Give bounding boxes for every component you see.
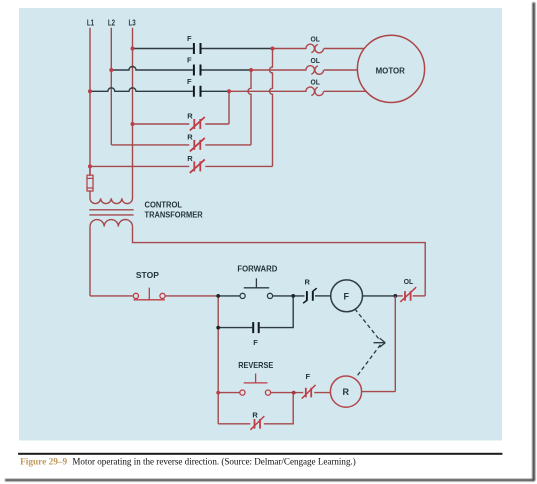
wire R holding rung — [218, 393, 293, 424]
contact OL (NC) bars and slash — [405, 291, 411, 301]
wire row1 black left segment — [133, 48, 193, 50]
junction dot L3 row1 — [131, 47, 135, 51]
svg-text:Figure 29–9: Figure 29–9 — [20, 457, 67, 467]
wire R coil to right vertical — [362, 391, 396, 393]
svg-text:L3: L3 — [129, 18, 137, 27]
transformer T1 secondary winding — [90, 220, 133, 227]
wire row2 red to motor — [324, 69, 358, 71]
wire R-row1 — [133, 123, 230, 125]
wire OL junction to OL contact — [395, 295, 403, 297]
junction dot L2 row2 — [109, 68, 113, 72]
wire row2 black left segment with hop over L3 — [111, 67, 193, 71]
wire F coil to OL junction — [363, 295, 396, 297]
junction dot F coil OL — [393, 294, 397, 298]
overload heater OL3 — [306, 87, 324, 96]
wire secondary right down and across to right rail — [133, 227, 426, 296]
wire row1 red to motor — [324, 48, 364, 50]
wire vertical row1 to R-row3 with hops — [270, 49, 273, 167]
wire vertical row3 to R-row1 — [228, 91, 230, 124]
wire reverse to F contact — [271, 392, 304, 394]
junction dot stop-forward — [216, 294, 220, 298]
contact R1 bars and slash — [190, 117, 205, 131]
wire row2 red to OL — [251, 69, 307, 71]
wire right vertical OL junction down to R coil rung — [394, 296, 396, 392]
wire row3 black right segment — [202, 90, 230, 92]
svg-text:OL: OL — [404, 277, 414, 286]
svg-text:REVERSE: REVERSE — [238, 360, 273, 370]
junction dot row2 vertical — [249, 68, 253, 72]
junction dot forward right corner — [291, 294, 295, 298]
junction dot row3 vertical — [227, 89, 231, 93]
wire row3 black left segment with hops over L2 and L3 — [90, 88, 193, 92]
svg-text:F: F — [187, 34, 192, 43]
svg-text:R: R — [187, 154, 193, 163]
wire L3 vertical — [132, 28, 134, 198]
wire reverse rung left — [218, 392, 240, 394]
wire left branch vertical (junction to reverse and holding rows) — [217, 296, 219, 424]
motor M1 circle — [357, 35, 424, 102]
svg-text:OL: OL — [311, 35, 321, 44]
wire row3 red to OL — [229, 90, 307, 92]
contact R2 bars and slash — [190, 138, 205, 152]
overload heater OL2 — [306, 66, 324, 75]
svg-text:TRANSFORMER: TRANSFORMER — [145, 211, 203, 220]
wire L2 vertical — [110, 28, 112, 145]
junction dot L1 row3 — [88, 89, 92, 93]
junction dot reverse rung right — [292, 391, 296, 395]
svg-text:L1: L1 — [87, 18, 95, 27]
wire row2 black right segment — [202, 69, 252, 71]
wire R contact to F coil — [315, 295, 331, 297]
wire OL to right rail — [413, 295, 426, 297]
wire stop rung left — [90, 295, 133, 297]
pushbutton STOP (NC) — [133, 293, 138, 298]
page bottom shadow — [5, 479, 535, 481]
overload heater OL1 — [306, 44, 324, 53]
wire row1 red to OL — [273, 48, 307, 50]
wire row1 black right segment — [202, 48, 273, 50]
mechanical interlock dashed link — [355, 309, 380, 341]
pushbutton REVERSE (NO) — [240, 390, 245, 395]
svg-text:OL: OL — [311, 77, 321, 86]
coil F — [331, 280, 363, 312]
svg-text:F: F — [187, 77, 192, 86]
contact R (NC open) bars with broken slash — [307, 291, 313, 301]
page right shadow — [532, 3, 535, 481]
junction dot reverse rung left — [216, 391, 220, 395]
transformer T1 primary winding — [90, 198, 133, 204]
wire R-row2 — [111, 144, 251, 146]
wire forward rung left — [218, 295, 240, 297]
svg-text:F: F — [306, 372, 311, 381]
junction dot row1 vertical — [271, 47, 275, 51]
svg-text:L2: L2 — [108, 18, 116, 27]
caption rule — [18, 453, 502, 455]
svg-text:F: F — [187, 56, 192, 65]
svg-text:F: F — [253, 338, 258, 347]
contact F2 bars — [194, 65, 201, 76]
wire L1 vertical — [89, 28, 91, 176]
wire row3 red to motor — [324, 90, 366, 92]
transformer T1 core — [89, 210, 133, 215]
wire stop to main junction — [165, 295, 218, 297]
junction dot L3 R-row1 — [131, 122, 135, 126]
pushbutton FORWARD (NO) — [240, 293, 245, 298]
wire F contact to R coil — [314, 392, 330, 394]
contact F (NC) bars and slash in reverse rung — [306, 388, 311, 398]
svg-text:R: R — [187, 112, 193, 121]
svg-text:MOTOR: MOTOR — [376, 65, 406, 75]
svg-text:STOP: STOP — [136, 270, 159, 280]
fuse F1 — [89, 166, 91, 198]
wire vertical row2 to R-row2 with hop — [248, 70, 251, 145]
wire F holding rung — [218, 296, 293, 328]
contact F holding bars — [253, 322, 259, 333]
coil R — [330, 376, 361, 407]
wire secondary left rail down to stop rung — [89, 227, 91, 296]
junction dot F holding left — [216, 326, 220, 330]
wire forward to R contact — [273, 295, 305, 297]
svg-text:R: R — [343, 387, 350, 397]
svg-text:R: R — [305, 278, 311, 287]
junction dot L1 R-row3 — [88, 164, 92, 168]
contact R3 bars and slash — [190, 159, 205, 173]
svg-text:R: R — [252, 411, 258, 420]
contact F1 bars — [194, 43, 201, 54]
wire R-row3 — [90, 165, 273, 167]
contact R holding bars and slash — [255, 419, 261, 429]
interlock arrow — [374, 338, 386, 347]
svg-text:CONTROL: CONTROL — [145, 200, 183, 209]
svg-text:FORWARD: FORWARD — [237, 264, 277, 274]
svg-text:Motor operating in the reverse: Motor operating in the reverse direction… — [72, 456, 355, 466]
contact F3 bars — [194, 86, 201, 97]
svg-text:F: F — [343, 291, 349, 301]
svg-text:OL: OL — [311, 56, 321, 65]
svg-text:R: R — [187, 133, 193, 142]
